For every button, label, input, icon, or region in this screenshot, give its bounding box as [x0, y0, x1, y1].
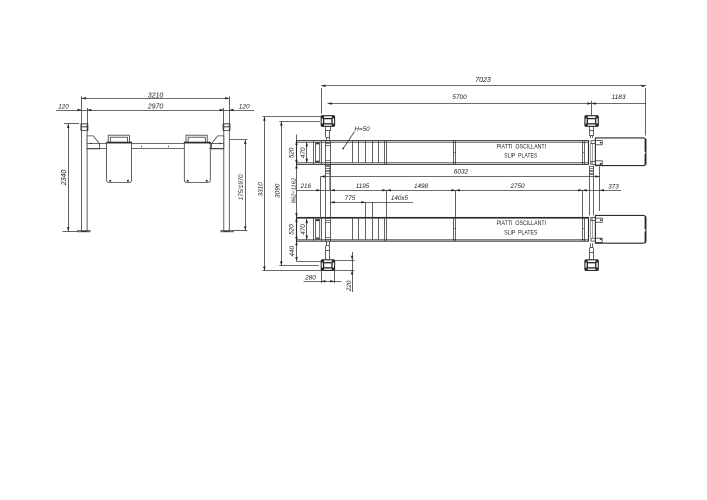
svg-text:280: 280 [304, 275, 316, 282]
dim 2970 with 120 margins [56, 103, 254, 123]
dim 6032 [321, 167, 600, 212]
svg-text:775: 775 [345, 195, 356, 202]
dim 3090 [275, 121, 320, 265]
svg-text:470: 470 [300, 224, 307, 235]
svg-text:3310: 3310 [258, 182, 265, 197]
svg-text:H=50: H=50 [354, 126, 370, 133]
svg-text:120: 120 [58, 103, 69, 110]
dim row 216/1195/1498/2750/373 [297, 183, 622, 218]
svg-text:1195: 1195 [356, 183, 370, 190]
dim 3210 [82, 92, 230, 123]
upper runway (plan) [297, 141, 589, 165]
front view: right post [221, 124, 234, 232]
svg-text:2750: 2750 [509, 183, 525, 190]
svg-text:3090: 3090 [275, 183, 282, 198]
dim 3310 [258, 117, 321, 271]
dim 280 [304, 270, 342, 283]
dim 470 lower [300, 219, 308, 240]
svg-text:7023: 7023 [475, 77, 491, 84]
post strip between runways right [590, 166, 594, 216]
front view: right pad [184, 135, 211, 182]
dim 5700 and 1183 [328, 94, 646, 115]
svg-text:SLIP PLATES: SLIP PLATES [504, 229, 537, 236]
lower rear ramp (plan) [591, 215, 647, 243]
svg-text:373: 373 [608, 183, 619, 190]
svg-text:520: 520 [289, 224, 296, 235]
post strip between runways left [326, 164, 331, 217]
svg-text:5700: 5700 [452, 94, 467, 101]
dim 2340 [61, 124, 79, 232]
post SW (plan) [321, 241, 334, 270]
post NE (plan) [585, 116, 598, 138]
svg-text:2340: 2340 [61, 170, 68, 187]
lower runway (plan) [297, 218, 589, 242]
svg-text:1183: 1183 [612, 94, 626, 101]
front view: left bracket [87, 136, 99, 149]
front view: left pad [106, 135, 132, 182]
front view: right bracket [211, 136, 223, 149]
svg-text:216: 216 [300, 183, 312, 190]
svg-text:2970: 2970 [147, 103, 164, 110]
svg-text:520: 520 [289, 147, 296, 158]
svg-text:470: 470 [300, 147, 307, 158]
svg-text:SLIP PLATES: SLIP PLATES [504, 153, 537, 160]
dim row 775/140x5 [331, 195, 414, 217]
svg-text:PIATTI OSCILLANTI: PIATTI OSCILLANTI [497, 220, 547, 227]
left dim column 520/862-1162/520/440 [289, 135, 322, 262]
svg-text:6032: 6032 [454, 168, 469, 175]
dim 220 [334, 252, 354, 292]
svg-text:862÷1162: 862÷1162 [291, 177, 297, 203]
extension line 6032/216 left [320, 177, 322, 218]
post SE (plan) [585, 243, 598, 270]
label H=50 [342, 126, 370, 149]
upper rear ramp (plan) [591, 138, 647, 166]
svg-text:440: 440 [289, 245, 296, 256]
svg-text:PIATTI OSCILLANTI: PIATTI OSCILLANTI [497, 143, 547, 150]
svg-text:220: 220 [346, 280, 353, 292]
post NW (plan) [321, 116, 334, 141]
dim 7023 [321, 77, 646, 136]
front view: left post [78, 124, 91, 232]
dim 470 upper [300, 142, 308, 163]
svg-text:140x5: 140x5 [391, 195, 409, 202]
svg-text:120: 120 [239, 103, 250, 110]
svg-text:1498: 1498 [414, 183, 429, 190]
svg-text:3210: 3210 [148, 92, 164, 99]
front view: crossbeam [87, 144, 224, 149]
dim 175/1970 [230, 140, 248, 231]
svg-text:175/1970: 175/1970 [238, 174, 245, 200]
